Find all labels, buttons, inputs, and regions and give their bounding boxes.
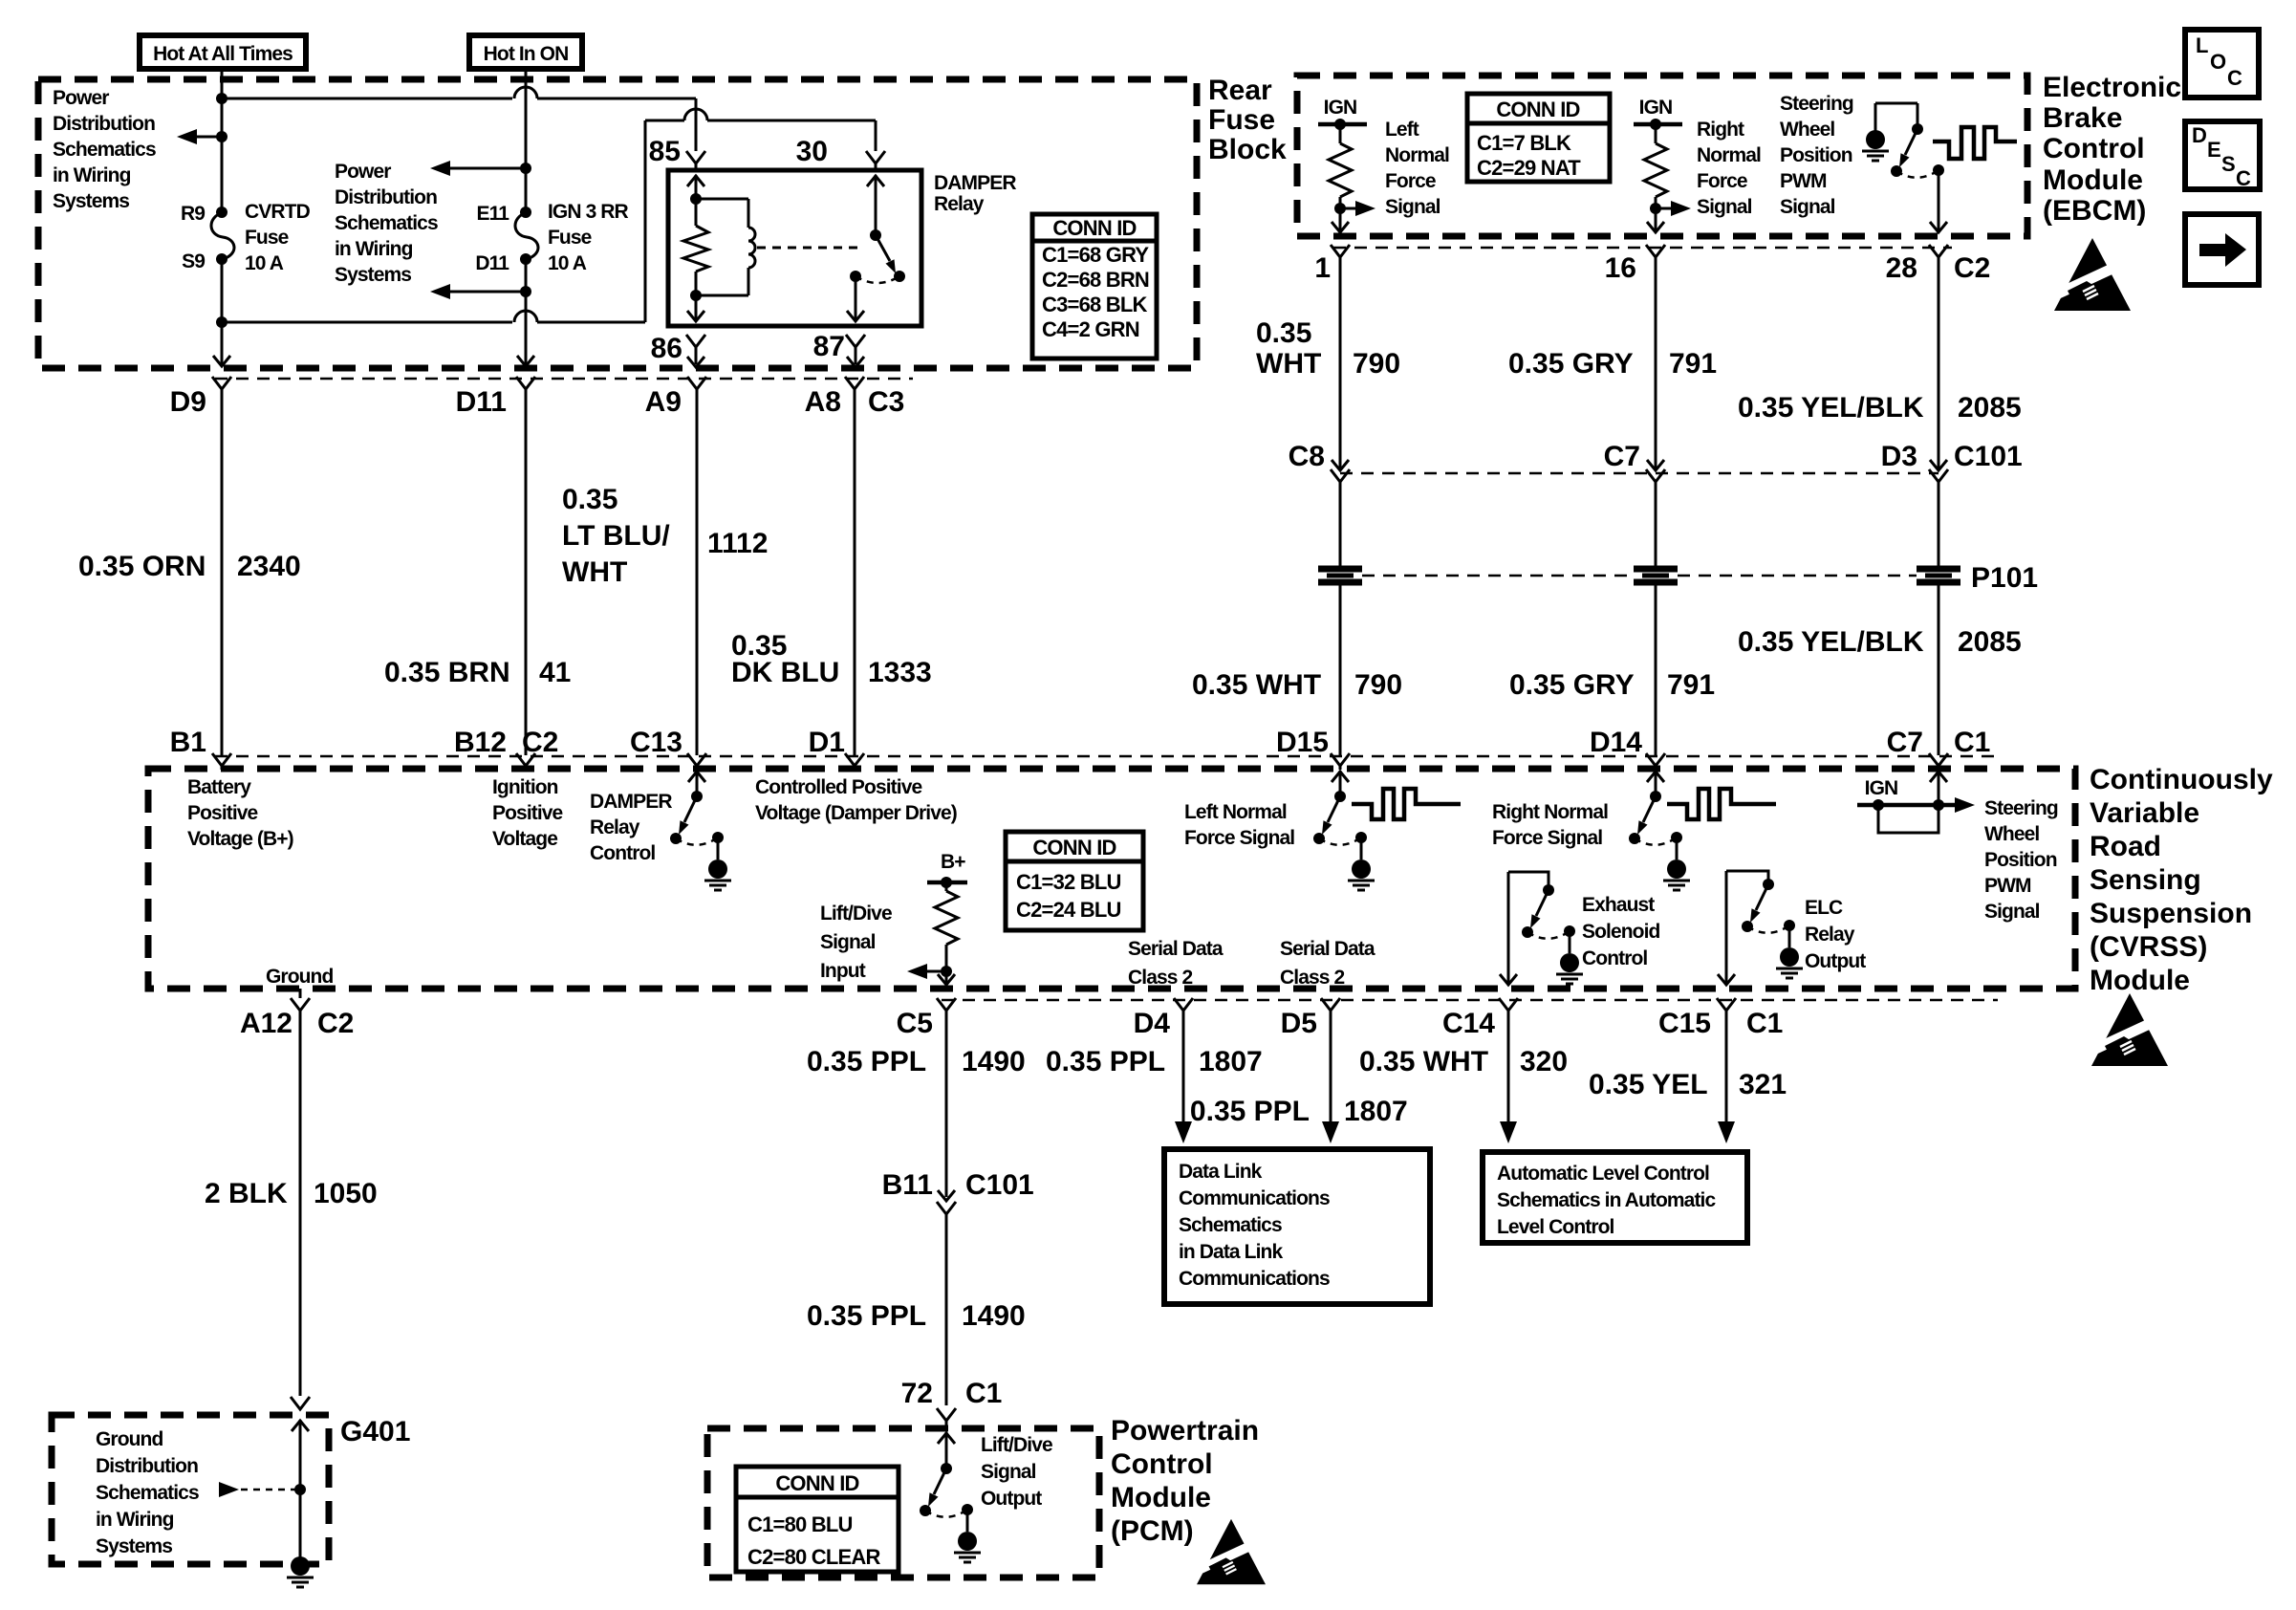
svg-text:Steering: Steering — [1780, 93, 1853, 115]
svg-text:Class 2: Class 2 — [1128, 967, 1192, 989]
svg-text:C1: C1 — [1746, 1008, 1783, 1039]
svg-text:28: 28 — [1886, 252, 1917, 284]
svg-text:C1: C1 — [1954, 727, 1990, 758]
svg-text:Module: Module — [2043, 164, 2143, 196]
svg-text:Distribution: Distribution — [96, 1455, 198, 1477]
svg-text:B12: B12 — [454, 727, 507, 758]
svg-text:85: 85 — [649, 136, 681, 167]
svg-text:Electronic: Electronic — [2043, 72, 2181, 103]
svg-text:0.35 PPL: 0.35 PPL — [807, 1300, 926, 1332]
svg-text:L: L — [2196, 33, 2208, 57]
svg-text:Block: Block — [1208, 134, 1287, 165]
svg-text:Communications: Communications — [1179, 1187, 1330, 1209]
svg-text:D11: D11 — [475, 252, 509, 274]
svg-text:D9: D9 — [170, 386, 206, 418]
svg-text:1807: 1807 — [1344, 1096, 1408, 1127]
svg-text:E: E — [2207, 138, 2220, 162]
svg-text:1333: 1333 — [868, 657, 932, 688]
svg-text:Solenoid: Solenoid — [1582, 921, 1660, 943]
svg-text:Left Normal: Left Normal — [1184, 801, 1287, 823]
svg-text:0.35 BRN: 0.35 BRN — [384, 657, 510, 688]
svg-text:72: 72 — [901, 1378, 933, 1409]
svg-text:Position: Position — [1780, 144, 1852, 166]
svg-text:16: 16 — [1605, 252, 1636, 284]
svg-text:Battery: Battery — [187, 776, 251, 798]
svg-text:Exhaust: Exhaust — [1582, 894, 1655, 916]
svg-text:C14: C14 — [1442, 1008, 1495, 1039]
svg-text:Left: Left — [1385, 119, 1419, 141]
svg-text:Signal: Signal — [1780, 196, 1835, 218]
svg-text:D: D — [2192, 123, 2206, 147]
svg-text:Normal: Normal — [1697, 144, 1761, 166]
svg-text:DK BLU: DK BLU — [731, 657, 839, 688]
svg-text:Fuse: Fuse — [245, 227, 289, 249]
svg-text:1112: 1112 — [707, 528, 768, 559]
svg-text:IGN: IGN — [1639, 97, 1673, 119]
svg-text:Serial Data: Serial Data — [1128, 938, 1224, 960]
svg-text:IGN: IGN — [1865, 777, 1898, 799]
svg-text:Sensing: Sensing — [2090, 864, 2201, 896]
svg-text:Voltage: Voltage — [492, 828, 557, 850]
svg-text:(PCM): (PCM) — [1111, 1515, 1194, 1547]
svg-text:Automatic Level Control: Automatic Level Control — [1497, 1163, 1709, 1185]
svg-text:C3=68 BLK: C3=68 BLK — [1042, 293, 1147, 316]
svg-text:Control: Control — [1582, 947, 1647, 969]
svg-text:Systems: Systems — [96, 1535, 172, 1557]
svg-text:Powertrain: Powertrain — [1111, 1415, 1259, 1447]
svg-text:D15: D15 — [1276, 727, 1329, 758]
svg-text:Module: Module — [2090, 965, 2190, 996]
svg-text:G401: G401 — [340, 1416, 410, 1447]
svg-text:Control: Control — [590, 842, 655, 864]
svg-text:10 A: 10 A — [548, 252, 587, 274]
svg-text:0.35 GRY: 0.35 GRY — [1509, 669, 1635, 701]
svg-text:in Data Link: in Data Link — [1179, 1241, 1283, 1263]
svg-text:Suspension: Suspension — [2090, 898, 2252, 929]
svg-text:Positive: Positive — [187, 802, 258, 824]
svg-text:PWM: PWM — [1780, 170, 1827, 192]
svg-text:2 BLK: 2 BLK — [205, 1178, 288, 1209]
svg-text:Power: Power — [53, 87, 109, 109]
svg-text:30: 30 — [796, 136, 828, 167]
svg-text:R9: R9 — [181, 203, 205, 225]
svg-text:Ignition: Ignition — [492, 776, 558, 798]
svg-text:Signal: Signal — [981, 1461, 1036, 1483]
svg-text:C5: C5 — [897, 1008, 933, 1039]
svg-text:A9: A9 — [645, 386, 682, 418]
svg-text:321: 321 — [1739, 1069, 1787, 1100]
svg-text:in Wiring: in Wiring — [53, 164, 131, 186]
svg-text:A8: A8 — [805, 386, 841, 418]
svg-text:DAMPER: DAMPER — [934, 172, 1016, 194]
svg-text:LT BLU/: LT BLU/ — [562, 520, 670, 552]
svg-text:in Wiring: in Wiring — [335, 238, 413, 260]
svg-text:Lift/Dive: Lift/Dive — [981, 1434, 1052, 1456]
svg-text:Schematics: Schematics — [53, 139, 156, 161]
svg-text:Right Normal: Right Normal — [1492, 801, 1608, 823]
svg-text:1490: 1490 — [962, 1300, 1026, 1332]
svg-text:Relay: Relay — [934, 193, 985, 215]
svg-text:D4: D4 — [1134, 1008, 1171, 1039]
svg-text:86: 86 — [651, 333, 682, 364]
svg-text:S: S — [2221, 152, 2235, 176]
svg-text:Fuse: Fuse — [548, 227, 592, 249]
svg-text:Signal: Signal — [820, 931, 876, 953]
svg-text:IGN: IGN — [1324, 97, 1357, 119]
svg-text:C2=24 BLU: C2=24 BLU — [1016, 898, 1121, 922]
svg-text:C7: C7 — [1887, 727, 1923, 758]
svg-text:791: 791 — [1667, 669, 1715, 701]
svg-text:0.35 ORN: 0.35 ORN — [78, 551, 206, 582]
svg-text:Continuously: Continuously — [2090, 764, 2273, 795]
svg-text:Fuse: Fuse — [1208, 104, 1275, 136]
svg-text:Force: Force — [1385, 170, 1436, 192]
svg-text:Systems: Systems — [335, 264, 411, 286]
svg-text:C2=80 CLEAR: C2=80 CLEAR — [747, 1545, 880, 1569]
svg-text:Module: Module — [1111, 1482, 1211, 1513]
svg-text:Wheel: Wheel — [1780, 119, 1834, 141]
svg-text:0.35 PPL: 0.35 PPL — [807, 1046, 926, 1077]
svg-text:Schematics in Automatic: Schematics in Automatic — [1497, 1189, 1716, 1211]
svg-text:CVRTD: CVRTD — [245, 201, 311, 223]
svg-text:C3: C3 — [868, 386, 904, 418]
svg-text:Schematics: Schematics — [96, 1482, 199, 1504]
svg-text:(CVRSS): (CVRSS) — [2090, 931, 2207, 963]
svg-text:P101: P101 — [1971, 562, 2038, 594]
svg-text:Normal: Normal — [1385, 144, 1449, 166]
svg-text:Signal: Signal — [1697, 196, 1752, 218]
svg-text:C1=80 BLU: C1=80 BLU — [747, 1512, 853, 1536]
svg-text:Relay: Relay — [590, 816, 640, 838]
svg-text:Voltage (Damper Drive): Voltage (Damper Drive) — [755, 802, 957, 824]
svg-text:Output: Output — [981, 1488, 1042, 1510]
svg-text:87: 87 — [813, 331, 845, 362]
svg-text:E11: E11 — [476, 203, 509, 225]
svg-text:DAMPER: DAMPER — [590, 791, 672, 813]
svg-text:CONN ID: CONN ID — [775, 1471, 858, 1495]
svg-text:C: C — [2236, 166, 2251, 190]
svg-text:2340: 2340 — [237, 551, 301, 582]
svg-text:CONN ID: CONN ID — [1032, 836, 1116, 859]
svg-text:Ground: Ground — [266, 966, 333, 988]
svg-text:C101: C101 — [965, 1169, 1034, 1201]
svg-text:(EBCM): (EBCM) — [2043, 195, 2146, 227]
svg-text:Output: Output — [1805, 950, 1866, 972]
svg-text:Hot At All Times: Hot At All Times — [153, 43, 292, 65]
svg-text:Force Signal: Force Signal — [1184, 827, 1294, 849]
svg-text:C2=29 NAT: C2=29 NAT — [1477, 156, 1581, 180]
svg-text:B+: B+ — [941, 851, 965, 873]
svg-text:Level Control: Level Control — [1497, 1216, 1614, 1238]
svg-text:Input: Input — [820, 960, 866, 982]
svg-text:C2: C2 — [522, 727, 558, 758]
svg-text:PWM: PWM — [1984, 875, 2031, 897]
svg-text:C1=32 BLU: C1=32 BLU — [1016, 870, 1121, 894]
svg-text:C1: C1 — [965, 1378, 1002, 1409]
svg-text:CONN ID: CONN ID — [1052, 216, 1136, 240]
svg-text:790: 790 — [1353, 348, 1400, 380]
svg-text:Data Link: Data Link — [1179, 1161, 1263, 1183]
svg-text:C13: C13 — [630, 727, 682, 758]
svg-text:Force: Force — [1697, 170, 1747, 192]
svg-text:CONN ID: CONN ID — [1496, 98, 1579, 121]
svg-text:0.35 YEL/BLK: 0.35 YEL/BLK — [1738, 626, 1924, 658]
svg-text:Serial Data: Serial Data — [1280, 938, 1375, 960]
svg-text:B11: B11 — [882, 1169, 933, 1201]
svg-text:Communications: Communications — [1179, 1268, 1330, 1290]
svg-text:A12: A12 — [240, 1008, 292, 1039]
svg-text:Voltage (B+): Voltage (B+) — [187, 828, 293, 850]
svg-text:C: C — [2227, 66, 2242, 90]
svg-text:Positive: Positive — [492, 802, 563, 824]
svg-text:Distribution: Distribution — [53, 113, 155, 135]
svg-text:Power: Power — [335, 161, 391, 183]
svg-text:Signal: Signal — [1984, 901, 2040, 923]
svg-text:WHT: WHT — [1256, 348, 1321, 380]
svg-text:C1=7 BLK: C1=7 BLK — [1477, 131, 1571, 155]
svg-text:Control: Control — [1111, 1448, 1213, 1480]
svg-text:Brake: Brake — [2043, 102, 2122, 134]
svg-text:Hot In ON: Hot In ON — [484, 43, 569, 65]
svg-text:Systems: Systems — [53, 190, 129, 212]
svg-text:320: 320 — [1520, 1046, 1568, 1077]
svg-text:10 A: 10 A — [245, 252, 284, 274]
svg-text:C2: C2 — [317, 1008, 354, 1039]
svg-text:C2: C2 — [1954, 252, 1990, 284]
svg-text:D14: D14 — [1590, 727, 1642, 758]
svg-text:in Wiring: in Wiring — [96, 1509, 174, 1531]
svg-text:Control: Control — [2043, 133, 2145, 164]
svg-text:C15: C15 — [1658, 1008, 1711, 1039]
svg-text:Right: Right — [1697, 119, 1744, 141]
svg-text:D1: D1 — [809, 727, 845, 758]
svg-text:D11: D11 — [456, 386, 507, 418]
svg-text:C8: C8 — [1289, 441, 1325, 472]
svg-text:Position: Position — [1984, 849, 2057, 871]
svg-text:Schematics: Schematics — [335, 212, 438, 234]
svg-text:IGN 3 RR: IGN 3 RR — [548, 201, 629, 223]
svg-text:O: O — [2210, 50, 2226, 74]
svg-text:Force Signal: Force Signal — [1492, 827, 1602, 849]
svg-text:0.35 PPL: 0.35 PPL — [1190, 1096, 1310, 1127]
svg-text:0.35 WHT: 0.35 WHT — [1359, 1046, 1488, 1077]
svg-text:Variable: Variable — [2090, 797, 2199, 829]
svg-text:0.35 YEL: 0.35 YEL — [1589, 1069, 1708, 1100]
svg-text:Ground: Ground — [96, 1428, 162, 1450]
svg-text:2085: 2085 — [1958, 392, 2022, 424]
svg-text:Wheel: Wheel — [1984, 823, 2039, 845]
svg-text:Signal: Signal — [1385, 196, 1440, 218]
svg-text:Schematics: Schematics — [1179, 1214, 1282, 1236]
svg-text:ELC: ELC — [1805, 897, 1843, 919]
svg-text:2085: 2085 — [1958, 626, 2022, 658]
svg-text:41: 41 — [539, 657, 571, 688]
svg-text:Rear: Rear — [1208, 75, 1272, 106]
svg-text:Distribution: Distribution — [335, 186, 437, 208]
svg-text:C1=68 GRY: C1=68 GRY — [1042, 243, 1149, 267]
svg-text:C2=68 BRN: C2=68 BRN — [1042, 268, 1149, 292]
svg-text:D3: D3 — [1881, 441, 1917, 472]
svg-text:0.35 PPL: 0.35 PPL — [1046, 1046, 1165, 1077]
svg-text:C7: C7 — [1604, 441, 1640, 472]
svg-text:S9: S9 — [182, 250, 205, 272]
svg-text:791: 791 — [1669, 348, 1717, 380]
svg-text:1050: 1050 — [314, 1178, 378, 1209]
svg-text:Steering: Steering — [1984, 797, 2058, 819]
svg-text:1807: 1807 — [1199, 1046, 1263, 1077]
svg-text:Class 2: Class 2 — [1280, 967, 1344, 989]
svg-text:D5: D5 — [1281, 1008, 1317, 1039]
svg-text:Road: Road — [2090, 831, 2161, 862]
svg-text:1490: 1490 — [962, 1046, 1026, 1077]
svg-text:B1: B1 — [170, 727, 206, 758]
svg-text:C4=2 GRN: C4=2 GRN — [1042, 317, 1139, 341]
svg-text:WHT: WHT — [562, 556, 627, 588]
svg-text:0.35: 0.35 — [1256, 317, 1311, 349]
svg-text:790: 790 — [1354, 669, 1402, 701]
svg-text:0.35 WHT: 0.35 WHT — [1192, 669, 1321, 701]
svg-text:0.35 YEL/BLK: 0.35 YEL/BLK — [1738, 392, 1924, 424]
svg-text:Relay: Relay — [1805, 924, 1855, 946]
svg-text:0.35 GRY: 0.35 GRY — [1508, 348, 1634, 380]
svg-text:0.35: 0.35 — [562, 484, 617, 515]
svg-text:1: 1 — [1314, 252, 1331, 284]
svg-text:Lift/Dive: Lift/Dive — [820, 903, 892, 925]
svg-text:Controlled Positive: Controlled Positive — [755, 776, 921, 798]
svg-text:C101: C101 — [1954, 441, 2023, 472]
